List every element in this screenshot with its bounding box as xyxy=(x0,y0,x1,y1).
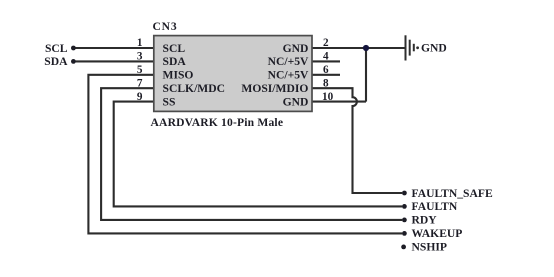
svg-text:RDY: RDY xyxy=(412,214,438,227)
svg-text:WAKEUP: WAKEUP xyxy=(412,227,463,240)
svg-text:4: 4 xyxy=(323,51,329,63)
svg-text:CN3: CN3 xyxy=(153,20,178,33)
node WAKEUP terminal dot xyxy=(402,231,407,236)
wire SCLK/MDC net (pin 7 down to RDY) xyxy=(101,88,402,220)
node SCL terminal dot xyxy=(71,46,76,51)
connector CN3 body xyxy=(154,36,312,112)
ground symbol xyxy=(406,35,414,60)
node GND junction on pin 2 wire xyxy=(363,45,369,51)
wire SCL net (pin 1 to SCL terminal) xyxy=(74,47,154,49)
wire GND net vertical (junction down to pin 10 wire) xyxy=(365,48,367,102)
svg-text:SCL: SCL xyxy=(163,42,186,55)
ground symbol dot xyxy=(416,46,419,49)
node NSHIP terminal dot xyxy=(401,245,406,250)
node FAULTN terminal dot xyxy=(402,204,407,209)
svg-text:3: 3 xyxy=(137,51,143,63)
wire GND net (pin 2 to ground symbol) xyxy=(312,47,405,49)
wire MISO net (pin 5 down to WAKEUP) xyxy=(88,75,402,234)
svg-text:1: 1 xyxy=(137,37,143,49)
svg-text:10: 10 xyxy=(322,91,334,103)
svg-text:GND: GND xyxy=(283,42,309,55)
wire pin 10 GND net (pin 10 to junction vertical) xyxy=(312,101,366,103)
svg-text:8: 8 xyxy=(323,77,329,89)
svg-text:9: 9 xyxy=(137,91,143,103)
wire NC/+5V stub (pin 4) xyxy=(312,60,340,62)
svg-text:AARDVARK 10-Pin Male: AARDVARK 10-Pin Male xyxy=(151,116,284,129)
svg-text:SDA: SDA xyxy=(44,55,68,68)
svg-text:FAULTN: FAULTN xyxy=(412,200,458,213)
wire SS net (pin 9 down to FAULTN) xyxy=(114,102,402,207)
node FAULTN_SAFE terminal dot xyxy=(402,191,407,196)
svg-text:SCL: SCL xyxy=(45,42,68,55)
wire NC/+5V stub (pin 6) xyxy=(312,74,340,76)
svg-text:2: 2 xyxy=(323,37,329,49)
svg-text:GND: GND xyxy=(283,95,309,108)
svg-text:NSHIP: NSHIP xyxy=(412,241,447,254)
svg-text:MOSI/MDIO: MOSI/MDIO xyxy=(241,82,308,95)
svg-text:NC/+5V: NC/+5V xyxy=(268,69,309,82)
svg-text:SS: SS xyxy=(163,95,176,108)
svg-text:6: 6 xyxy=(323,64,329,76)
svg-text:7: 7 xyxy=(137,77,143,89)
svg-text:5: 5 xyxy=(137,64,143,76)
node RDY terminal dot xyxy=(402,218,407,223)
wire MOSI/MDIO net (pin 8 down to FAULTN_SAFE, hop over pin 10 wire) xyxy=(312,88,402,193)
svg-text:MISO: MISO xyxy=(163,69,194,82)
wire SDA net (pin 3 to SDA terminal) xyxy=(74,60,154,62)
svg-text:FAULTN_SAFE: FAULTN_SAFE xyxy=(412,187,493,200)
svg-text:GND: GND xyxy=(421,42,447,55)
svg-text:SDA: SDA xyxy=(163,55,187,68)
svg-text:SCLK/MDC: SCLK/MDC xyxy=(163,82,225,95)
node SDA terminal dot xyxy=(71,59,76,64)
svg-text:NC/+5V: NC/+5V xyxy=(268,55,309,68)
